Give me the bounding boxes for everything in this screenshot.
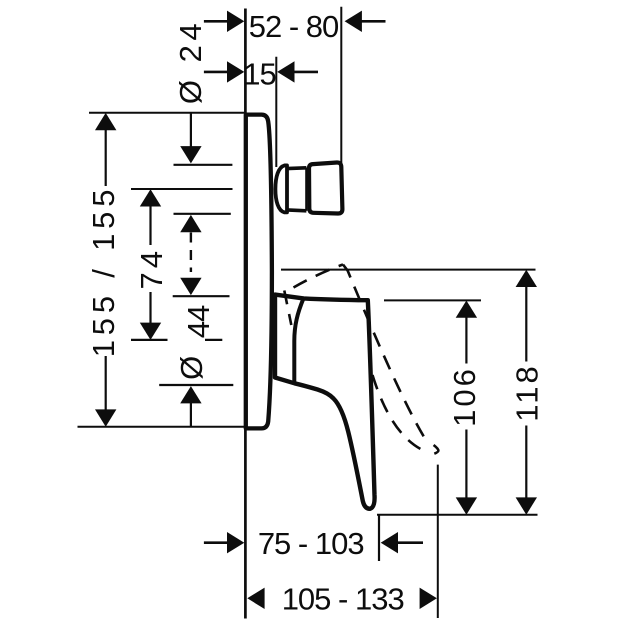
reference line raised lever top (118 top) — [281, 269, 536, 271]
dimension 52-80 — [204, 9, 386, 44]
reference line lever top (106 top) — [384, 299, 481, 301]
wall line — [244, 9, 247, 619]
raised lever inner edge (dashed) — [373, 375, 426, 451]
reference line lever bottom — [377, 514, 538, 516]
raised lever front edge (dashed) — [343, 265, 428, 444]
escutcheon plate — [246, 115, 272, 429]
top reference line (plate top) — [89, 112, 246, 114]
svg-text:118: 118 — [510, 363, 545, 421]
bottom reference line (plate bottom) — [78, 426, 247, 428]
extension line raised lever tip — [437, 465, 439, 618]
svg-text:Ø: Ø — [174, 356, 209, 380]
lever handle — [275, 295, 375, 509]
lever handle back edge — [294, 298, 303, 381]
raised lever back edge (dashed) — [284, 291, 291, 326]
svg-text:Ø 24: Ø 24 — [173, 19, 208, 104]
dimension 74 — [131, 189, 233, 340]
extension line knob front (52-80 right reference) — [340, 7, 342, 163]
svg-text:75 - 103: 75 - 103 — [258, 526, 364, 561]
svg-text:52 - 80: 52 - 80 — [249, 9, 339, 44]
extension tick lever tip (75-103 right reference) — [378, 515, 380, 561]
diverter knob head — [309, 162, 342, 213]
dimension 106 — [447, 301, 482, 515]
dimension 75-103 — [204, 526, 423, 561]
raised lever tip (dashed) — [434, 445, 439, 454]
raised lever top edge (dashed) — [294, 265, 344, 288]
svg-text:106: 106 — [447, 366, 482, 427]
dimension diameter 24 (knob height) — [174, 113, 233, 272]
dimension diameter 44 — [159, 278, 233, 426]
svg-text:15: 15 — [243, 56, 275, 91]
dimension 155 / 155 — [86, 113, 121, 427]
dimension 15 — [204, 56, 318, 91]
dimension 118 — [510, 270, 545, 515]
diverter knob neck — [287, 168, 307, 211]
dimension 105-133 — [247, 582, 437, 617]
extension line plate front (15 right reference) — [275, 57, 277, 167]
svg-text:44: 44 — [181, 305, 216, 338]
diverter knob base ring — [275, 165, 287, 212]
svg-text:155 / 155: 155 / 155 — [86, 185, 121, 357]
svg-text:74: 74 — [134, 247, 169, 289]
svg-text:105 - 133: 105 - 133 — [282, 582, 404, 617]
